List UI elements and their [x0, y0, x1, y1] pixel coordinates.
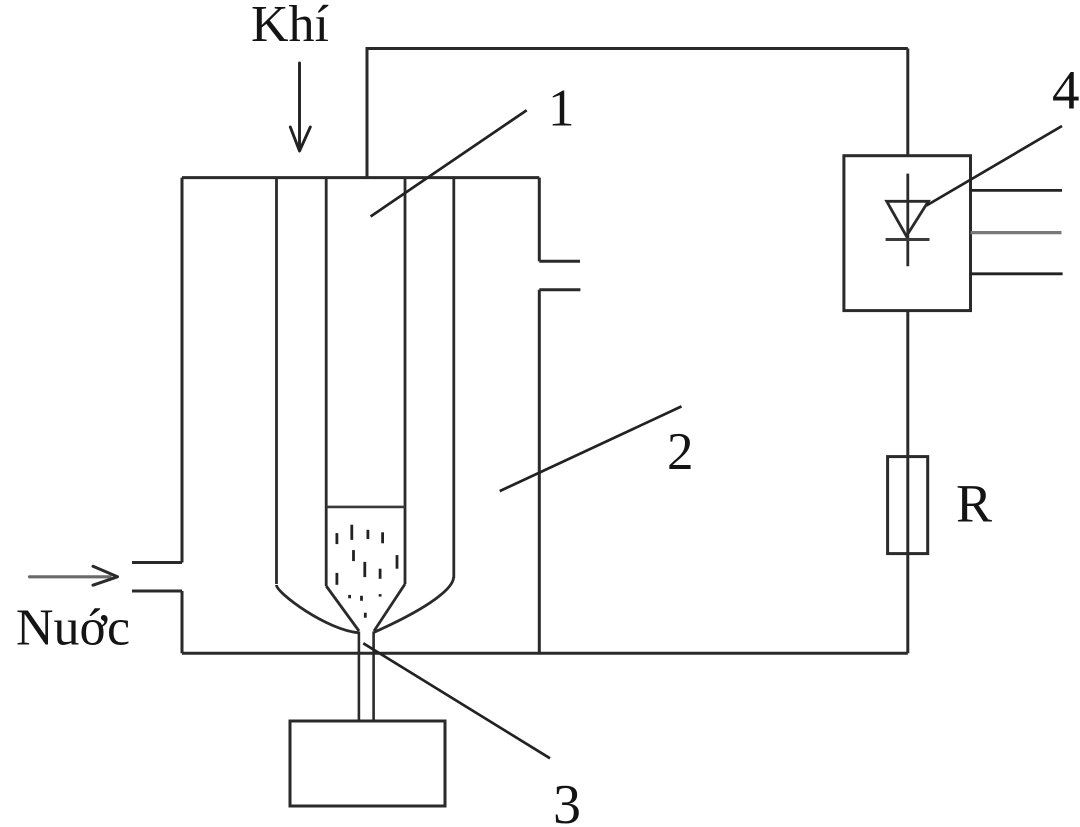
spray dashes: [337, 525, 397, 618]
nozzle tube left: [358, 632, 361, 722]
liquid level line: [326, 506, 405, 509]
wire right (HV to bottom): [906, 49, 909, 654]
diode bar: [886, 238, 930, 241]
outer tube wall right: [452, 178, 455, 578]
leader line 2: [500, 406, 682, 491]
diode cathode lead: [906, 174, 909, 267]
pin line bottom: [971, 272, 1063, 275]
outer tube bowl bottom: [277, 577, 454, 633]
inner tube 1 wall right: [404, 178, 407, 584]
diode triangle: [887, 201, 929, 236]
inner tube taper right: [374, 584, 405, 631]
svg-text:R: R: [956, 474, 992, 534]
svg-text:1: 1: [548, 80, 575, 138]
water inlet stub lower: [132, 590, 182, 593]
gas outlet stub lower: [539, 288, 580, 291]
water inlet stub upper: [132, 561, 182, 564]
wire top (HV lead): [367, 49, 908, 178]
wire bottom (return): [182, 652, 908, 655]
arrow gas-down: [290, 63, 310, 151]
leader line 3: [363, 643, 550, 758]
svg-text:2: 2: [667, 423, 694, 481]
inner tube taper left: [326, 586, 359, 631]
HV supply box 4: [844, 156, 971, 311]
gas outlet stub upper: [539, 260, 580, 263]
outer tube wall left: [275, 178, 278, 584]
pin line top: [971, 189, 1063, 192]
resistor R: [888, 457, 928, 554]
nozzle tube right: [372, 632, 375, 722]
leader line 4: [927, 126, 1063, 206]
svg-text:3: 3: [553, 774, 581, 827]
leader line 1: [371, 110, 527, 216]
svg-text:Nuớc: Nuớc: [16, 600, 130, 657]
pin line middle (gray): [971, 231, 1062, 234]
vessel 2 right wall with outlet gap: [538, 178, 541, 654]
inner tube 1 wall left: [325, 178, 328, 586]
svg-text:Khí: Khí: [251, 0, 329, 53]
arrow water-right: [30, 575, 111, 578]
vessel 2 outer wall left with inlet gap: [181, 178, 184, 654]
svg-text:4: 4: [1052, 60, 1080, 121]
pump box: [290, 721, 445, 806]
vessel 2 lid: [182, 176, 539, 179]
